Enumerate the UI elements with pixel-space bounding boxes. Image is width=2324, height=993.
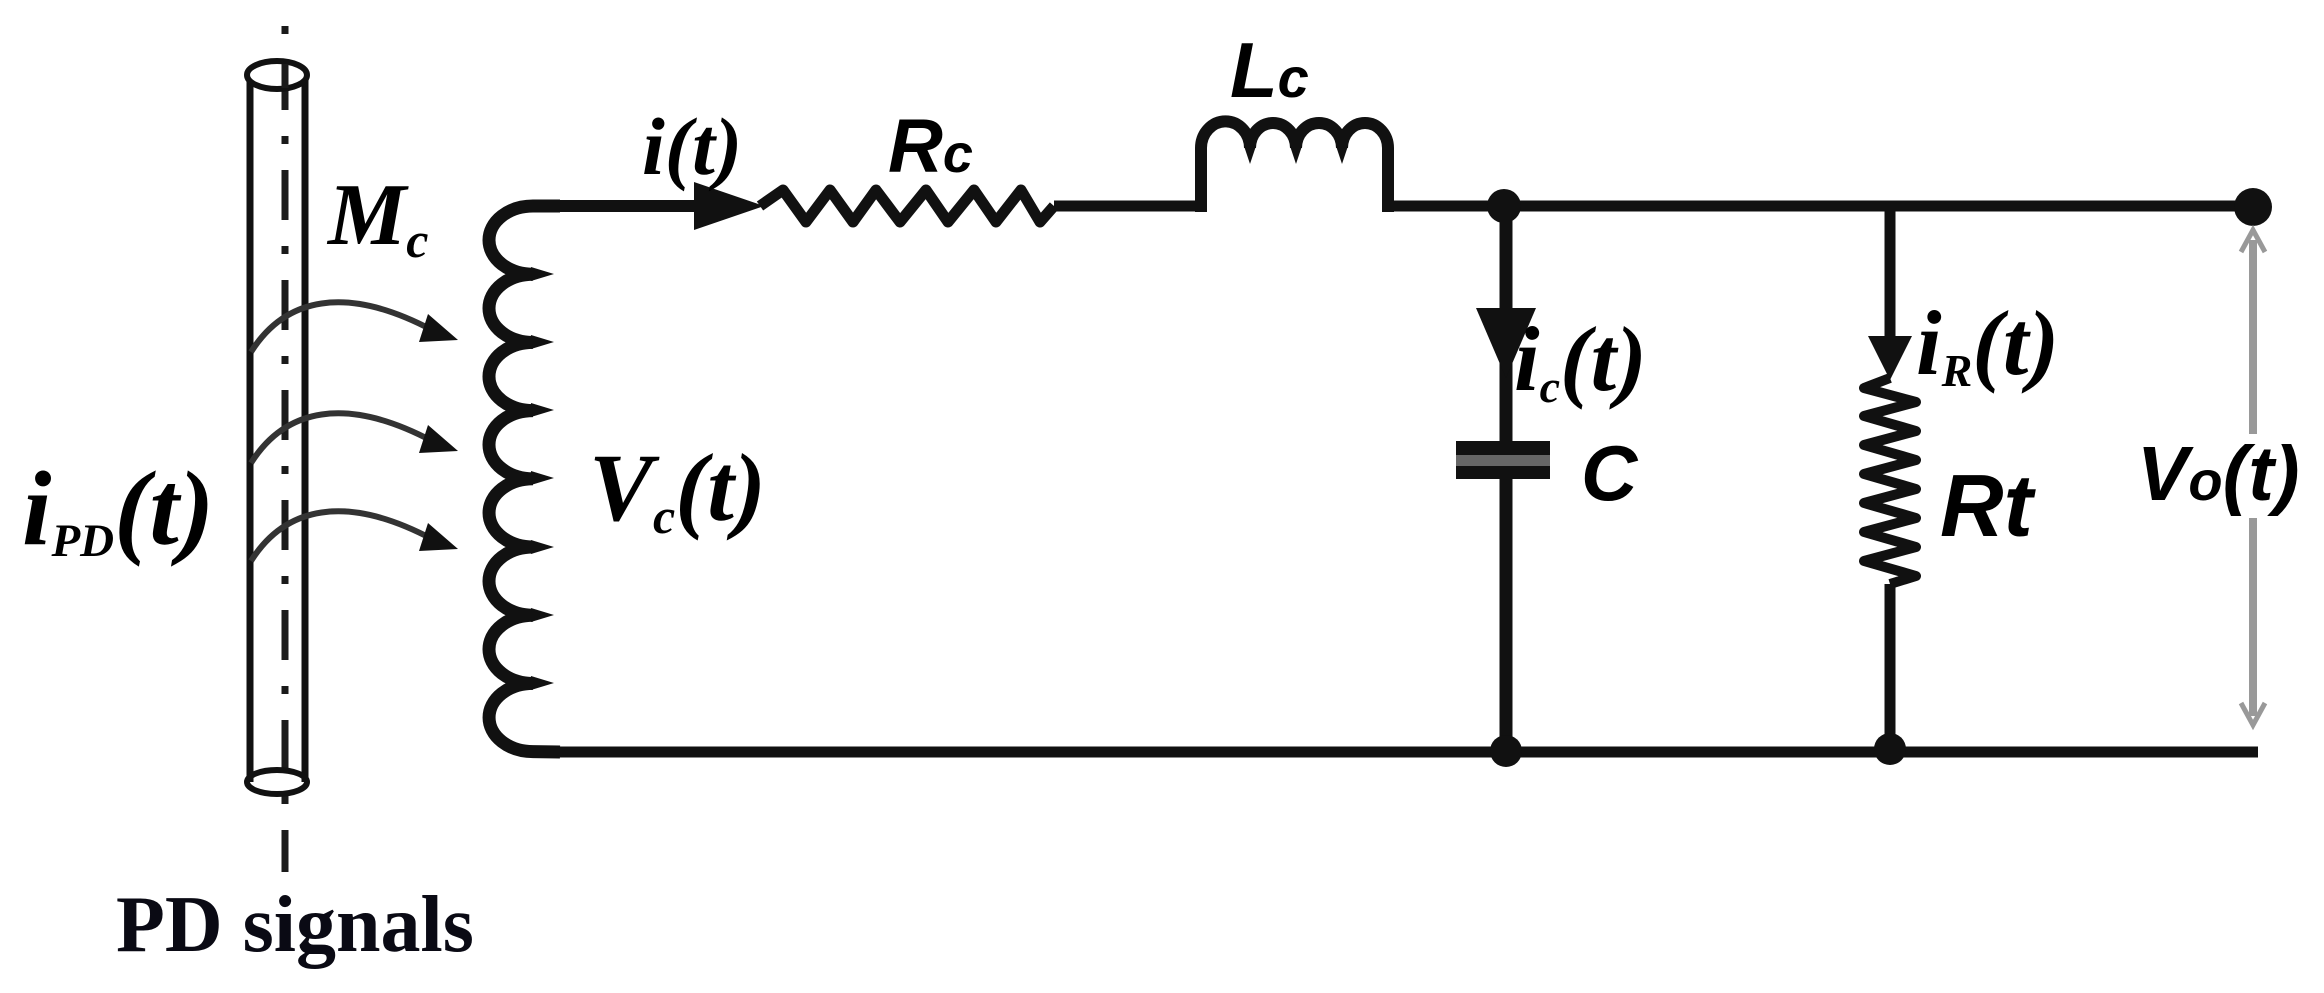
capacitor C branch wire lower xyxy=(1500,479,1513,752)
wire bottom xyxy=(555,747,2258,758)
svg-text:i(t): i(t) xyxy=(642,101,742,192)
white gap on measurement arrow behind Vo(t) xyxy=(2227,434,2313,518)
current arrow i(t) xyxy=(694,182,764,230)
node top right xyxy=(2234,188,2272,226)
Vo measurement arrow (gray double-headed) xyxy=(2241,230,2265,725)
svg-text:Vc(t): Vc(t) xyxy=(589,434,766,544)
svg-text:ic(t): ic(t) xyxy=(1514,308,1647,412)
mutual coupling arrow 1 xyxy=(251,302,458,352)
antenna rod top cap ellipse xyxy=(247,61,307,89)
resistor Rt zigzag xyxy=(1864,378,1916,584)
svg-text:C: C xyxy=(1581,429,1639,517)
node bottom capacitor xyxy=(1490,735,1522,767)
capacitor C plates xyxy=(1456,441,1550,479)
wire between Rc and Lc xyxy=(1054,201,1201,212)
antenna rod bottom cap ellipse xyxy=(247,770,307,794)
dash-dot axis of antenna rod xyxy=(282,26,289,872)
resistor Rt branch wire lower xyxy=(1885,584,1896,752)
antenna rod body xyxy=(250,75,305,782)
wire top right segment xyxy=(1388,201,2253,212)
coupling coil (secondary winding) xyxy=(489,206,560,752)
wire top left segment xyxy=(555,200,706,212)
svg-text:iR(t): iR(t) xyxy=(1916,292,2059,396)
mutual coupling arrow 3 xyxy=(251,511,458,561)
capacitor C branch wire upper xyxy=(1500,206,1513,443)
resistor Rt branch wire upper xyxy=(1885,206,1896,345)
svg-text:PD signals: PD signals xyxy=(116,881,474,969)
coil cusp hooks xyxy=(531,267,554,690)
svg-text:Rt: Rt xyxy=(1940,456,2037,555)
mutual coupling arrow 2 xyxy=(251,413,458,463)
node bottom Rt xyxy=(1874,733,1906,765)
inductor Lc xyxy=(1201,121,1388,212)
current arrow i_R(t) xyxy=(1868,336,1912,380)
resistor Rc xyxy=(760,190,1054,222)
current arrow i_c(t) xyxy=(1476,308,1536,378)
axis dash crossing top ellipse xyxy=(282,64,289,88)
inductor cusp ticks xyxy=(1244,146,1348,164)
node junction top (capacitor tap) xyxy=(1487,189,1521,223)
svg-text:iPD(t): iPD(t) xyxy=(22,450,214,567)
